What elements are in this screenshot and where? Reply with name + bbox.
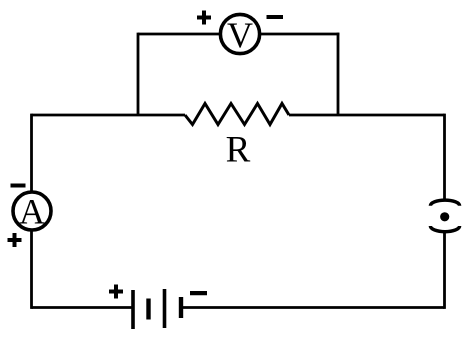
key contact dot bbox=[440, 212, 449, 221]
polarity + of battery bbox=[109, 285, 123, 299]
battery plate short 2 bbox=[179, 297, 183, 318]
wire: voltmeter branch right vertical bbox=[337, 33, 340, 115]
ammeter A bbox=[13, 192, 51, 230]
key top arc bbox=[430, 200, 459, 206]
polarity - of ammeter bbox=[11, 184, 26, 188]
wire: main top horizontal left segment bbox=[32, 114, 186, 117]
wire: voltmeter branch top-right horizontal bbox=[260, 33, 339, 36]
polarity + of voltmeter bbox=[197, 11, 211, 25]
wire: bottom horizontal left segment bbox=[32, 306, 134, 309]
svg-text:A: A bbox=[19, 192, 45, 232]
battery plate short 1 bbox=[146, 299, 150, 320]
wire: right vertical above key bbox=[443, 114, 446, 200]
battery plate long 2 bbox=[163, 289, 167, 328]
polarity - of battery bbox=[190, 291, 207, 295]
wire: left vertical below ammeter bbox=[30, 230, 33, 309]
svg-text:R: R bbox=[226, 130, 251, 171]
polarity - of voltmeter bbox=[267, 15, 284, 19]
svg-text:V: V bbox=[227, 15, 253, 55]
polarity + of ammeter bbox=[8, 233, 22, 247]
battery plate long 1 bbox=[131, 290, 135, 329]
wire: voltmeter branch left vertical bbox=[137, 33, 140, 115]
voltmeter V bbox=[220, 14, 259, 53]
resistor R bbox=[185, 104, 289, 125]
wire: left vertical above ammeter bbox=[30, 114, 33, 192]
wire: right vertical below key bbox=[443, 233, 446, 309]
battery B bbox=[131, 289, 183, 329]
plug key K bbox=[430, 200, 459, 232]
wire: main top horizontal right segment bbox=[289, 114, 445, 117]
wire: bottom horizontal right segment bbox=[181, 306, 445, 309]
wire: voltmeter branch top-left horizontal bbox=[138, 33, 221, 36]
key bottom arc bbox=[430, 226, 459, 232]
